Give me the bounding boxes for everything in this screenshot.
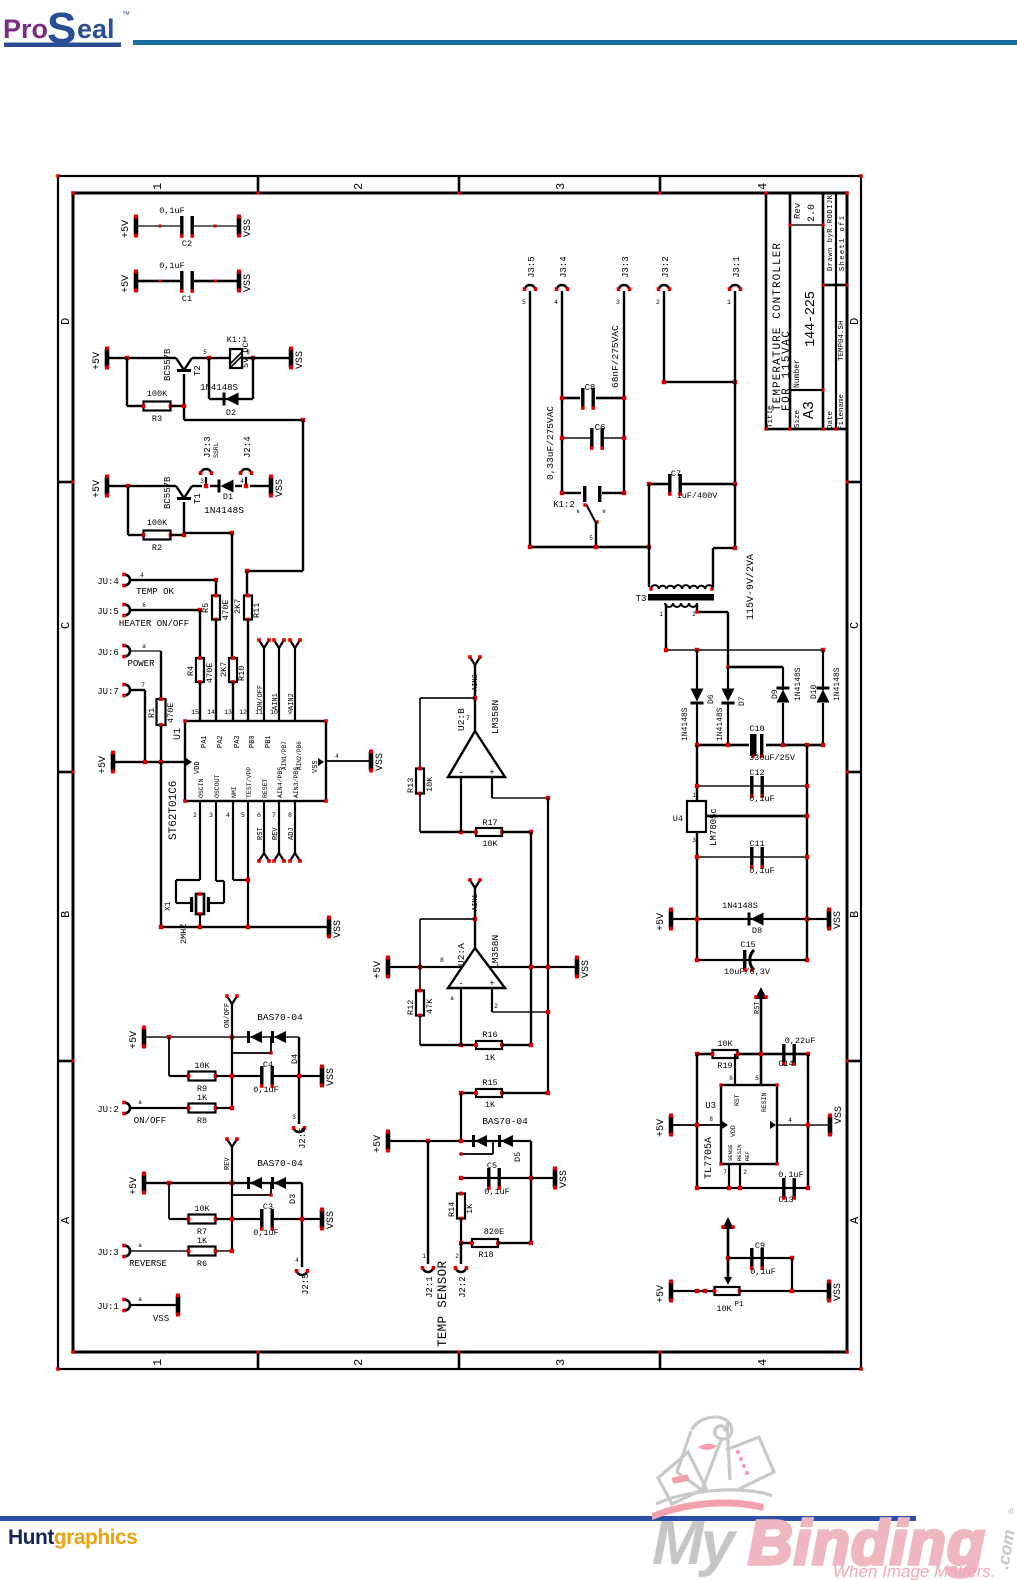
svg-text:0,1uF: 0,1uF <box>484 1187 510 1197</box>
svg-text:0,1uF: 0,1uF <box>159 261 185 271</box>
svg-text:LM7805c: LM7805c <box>709 808 719 846</box>
svg-text:VSS: VSS <box>333 920 344 938</box>
svg-text:3: 3 <box>616 299 620 306</box>
svg-text:C15: C15 <box>740 940 755 950</box>
svg-text:B: B <box>848 911 862 918</box>
svg-text:VDD: VDD <box>194 761 202 774</box>
svg-text:470E: 470E <box>205 663 215 683</box>
svg-text:J3:2: J3:2 <box>661 256 671 278</box>
svg-text:C5: C5 <box>487 1161 497 1171</box>
svg-text:0,33uF/275VAC: 0,33uF/275VAC <box>545 406 556 480</box>
svg-text:R5: R5 <box>201 603 211 613</box>
svg-text:VSS: VSS <box>375 753 386 771</box>
svg-text:®: ® <box>1008 1506 1015 1516</box>
svg-text:VSS: VSS <box>275 479 286 497</box>
svg-text:U4: U4 <box>673 814 683 824</box>
svg-text:1N4148S: 1N4148S <box>794 667 803 701</box>
svg-text:D1: D1 <box>223 492 233 502</box>
svg-text:+5V: +5V <box>92 480 103 498</box>
svg-text:2.0: 2.0 <box>807 204 818 222</box>
svg-text:470E: 470E <box>166 703 176 723</box>
svg-text:+5V: +5V <box>373 961 384 979</box>
svg-text:+5V: +5V <box>129 1177 140 1195</box>
svg-text:J3:5: J3:5 <box>527 256 537 278</box>
svg-text:J2:5: J2:5 <box>301 1273 311 1295</box>
svg-text:2: 2 <box>494 1003 498 1010</box>
svg-text:SSRL: SSRL <box>213 442 220 458</box>
svg-text:C11: C11 <box>749 839 764 849</box>
svg-text:VSS: VSS <box>243 219 254 237</box>
svg-text:100K: 100K <box>147 389 168 399</box>
svg-text:820E: 820E <box>484 1227 504 1237</box>
svg-text:J3:3: J3:3 <box>621 256 631 278</box>
svg-text:A: A <box>848 1216 862 1224</box>
svg-text:R1: R1 <box>147 708 157 718</box>
svg-text:D: D <box>59 318 73 325</box>
svg-text:2: 2 <box>455 1253 459 1260</box>
svg-text:3: 3 <box>554 183 568 190</box>
svg-text:5: 5 <box>589 535 593 542</box>
svg-text:C1: C1 <box>182 294 192 304</box>
svg-text:12: 12 <box>239 709 247 716</box>
svg-text:Filename: Filename <box>838 394 846 430</box>
svg-text:10K: 10K <box>716 1304 732 1314</box>
svg-text:R10: R10 <box>237 666 247 681</box>
svg-text:BAS70-04: BAS70-04 <box>257 1158 303 1169</box>
svg-text:RST: RST <box>754 1001 762 1014</box>
svg-text:REV: REV <box>272 827 280 840</box>
svg-text:1K: 1K <box>197 1093 208 1103</box>
svg-text:330uF/25V: 330uF/25V <box>749 753 796 763</box>
svg-text:TL7705A: TL7705A <box>704 1137 715 1179</box>
svg-text:PB1: PB1 <box>265 735 273 748</box>
svg-text:4: 4 <box>295 1257 299 1264</box>
svg-text:9: 9 <box>246 349 250 356</box>
svg-text:2: 2 <box>352 183 366 190</box>
svg-text:VSS: VSS <box>243 274 254 292</box>
svg-text:1K: 1K <box>485 1100 496 1110</box>
svg-text:VDD: VDD <box>730 1125 737 1137</box>
svg-text:JU:7: JU:7 <box>97 687 119 697</box>
svg-text:TEST/VPP: TEST/VPP <box>246 767 253 798</box>
svg-text:AIN4/PB5: AIN4/PB5 <box>277 767 284 798</box>
svg-text:4: 4 <box>240 478 244 485</box>
svg-text:ON/OFF: ON/OFF <box>224 1003 232 1028</box>
svg-text:R18: R18 <box>478 1250 493 1260</box>
svg-text:D7: D7 <box>738 696 747 706</box>
svg-text:J3:4: J3:4 <box>559 256 569 278</box>
svg-text:R16: R16 <box>482 1030 497 1040</box>
svg-text:ADJ: ADJ <box>288 827 296 840</box>
svg-text:AIN2: AIN2 <box>288 693 296 710</box>
svg-text:JU:5: JU:5 <box>97 607 119 617</box>
svg-text:C7: C7 <box>671 469 681 479</box>
svg-text:a: a <box>138 1242 142 1249</box>
svg-text:+5V: +5V <box>121 275 132 293</box>
svg-text:JU:1: JU:1 <box>97 1302 119 1312</box>
svg-text:8: 8 <box>709 1116 713 1123</box>
svg-text:C14: C14 <box>778 1059 793 1069</box>
svg-text:A3: A3 <box>801 401 818 419</box>
svg-text:REVERSE: REVERSE <box>129 1259 167 1269</box>
svg-text:+5V: +5V <box>373 1135 384 1153</box>
svg-text:0,1uF: 0,1uF <box>253 1085 279 1095</box>
svg-text:J2:1: J2:1 <box>425 1276 435 1298</box>
svg-text:+5V: +5V <box>656 913 667 931</box>
svg-text:0,1uF: 0,1uF <box>749 866 775 876</box>
svg-text:+5V: +5V <box>129 1031 140 1049</box>
svg-text:BC557B: BC557B <box>163 476 173 509</box>
svg-text:1N4148S: 1N4148S <box>204 505 244 516</box>
svg-text:+5V: +5V <box>98 756 109 774</box>
svg-text:1N4148S: 1N4148S <box>681 707 690 741</box>
svg-text:144-225: 144-225 <box>803 291 819 347</box>
svg-text:a: a <box>450 995 454 1002</box>
svg-text:K1:2: K1:2 <box>553 500 575 510</box>
svg-text:ST62T01C6: ST62T01C6 <box>168 781 180 840</box>
svg-text:a: a <box>142 643 146 650</box>
svg-text:AIN1/PB7: AIN1/PB7 <box>281 741 288 770</box>
svg-text:P1: P1 <box>734 1301 744 1309</box>
svg-text:R17: R17 <box>482 818 497 828</box>
svg-text:VSS: VSS <box>833 1283 844 1301</box>
svg-text:C: C <box>59 622 73 629</box>
svg-text:D6: D6 <box>707 694 716 704</box>
svg-text:FOR 115VAC: FOR 115VAC <box>781 331 793 411</box>
svg-text:TEMP OK: TEMP OK <box>136 587 174 597</box>
svg-text:0,1uF: 0,1uF <box>749 794 775 804</box>
svg-text:J2:3: J2:3 <box>203 436 213 458</box>
svg-text:0,1uF: 0,1uF <box>778 1170 804 1180</box>
svg-text:PA1: PA1 <box>201 735 209 748</box>
svg-text:3: 3 <box>200 478 204 485</box>
svg-text:C13: C13 <box>778 1195 793 1205</box>
svg-text:VSS: VSS <box>312 760 320 773</box>
svg-text:VSS: VSS <box>326 1068 337 1086</box>
svg-text:LM358N: LM358N <box>490 700 501 734</box>
svg-text:JU:4: JU:4 <box>97 577 119 587</box>
svg-text:+: + <box>489 768 494 778</box>
svg-text:1: 1 <box>151 1359 165 1366</box>
svg-text:C: C <box>848 622 862 629</box>
svg-text:JU:2: JU:2 <box>97 1105 119 1115</box>
svg-text:J2:5: J2:5 <box>298 1127 308 1149</box>
svg-text:VSS: VSS <box>581 960 592 978</box>
svg-text:3: 3 <box>209 812 213 819</box>
svg-text:JU:3: JU:3 <box>97 1248 119 1258</box>
svg-text:R3: R3 <box>152 414 162 424</box>
svg-text:2: 2 <box>743 1169 747 1176</box>
svg-text:C12: C12 <box>749 768 764 778</box>
svg-text:a: a <box>138 1099 142 1106</box>
svg-text:7: 7 <box>723 1169 727 1176</box>
svg-text:RST: RST <box>257 827 265 840</box>
svg-text:4: 4 <box>756 183 770 190</box>
svg-text:C4: C4 <box>263 1060 273 1070</box>
svg-text:X1: X1 <box>164 901 173 911</box>
svg-text:6: 6 <box>142 602 146 609</box>
svg-text:RESIN: RESIN <box>761 1092 768 1112</box>
svg-text:15: 15 <box>191 709 199 716</box>
svg-text:0,1uF: 0,1uF <box>253 1228 279 1238</box>
svg-text:R2: R2 <box>152 543 162 553</box>
svg-text:-: - <box>458 768 463 778</box>
svg-text:+: + <box>489 979 494 989</box>
svg-text:Date: Date <box>827 411 835 429</box>
svg-text:1: 1 <box>692 792 696 799</box>
svg-text:RESIN: RESIN <box>736 1144 743 1161</box>
svg-text:D10: D10 <box>810 684 819 699</box>
svg-text:4: 4 <box>140 572 144 579</box>
svg-text:4: 4 <box>335 753 339 760</box>
svg-text:8: 8 <box>288 812 292 819</box>
svg-text:+5V: +5V <box>656 1119 667 1137</box>
svg-text:JU:6: JU:6 <box>97 648 119 658</box>
svg-text:T1: T1 <box>193 493 203 504</box>
svg-text:7: 7 <box>272 812 276 819</box>
svg-text:C6: C6 <box>595 423 606 433</box>
svg-text:5: 5 <box>755 1075 759 1082</box>
svg-text:4: 4 <box>226 812 230 819</box>
svg-text:1K: 1K <box>485 1053 496 1063</box>
svg-text:0,22uF: 0,22uF <box>785 1036 816 1046</box>
svg-text:My: My <box>652 1509 739 1578</box>
svg-text:Number: Number <box>793 359 802 388</box>
svg-text:2: 2 <box>193 812 197 819</box>
svg-text:REF: REF <box>744 1151 751 1161</box>
svg-text:14: 14 <box>207 709 215 716</box>
svg-text:3: 3 <box>554 1359 568 1366</box>
svg-text:C10: C10 <box>749 724 764 734</box>
svg-text:HEATER ON/OFF: HEATER ON/OFF <box>119 619 189 629</box>
svg-text:Drawn byR.RODIJK: Drawn byR.RODIJK <box>827 194 835 271</box>
svg-text:PA3: PA3 <box>234 735 242 748</box>
svg-text:R6: R6 <box>197 1259 207 1269</box>
svg-text:U1: U1 <box>173 728 184 740</box>
svg-text:1N4148S: 1N4148S <box>200 383 238 393</box>
svg-text:1K: 1K <box>465 1203 475 1214</box>
svg-text:AIN1: AIN1 <box>472 894 480 911</box>
svg-text:4: 4 <box>756 1359 770 1366</box>
svg-text:T2: T2 <box>193 365 203 376</box>
svg-text:R12: R12 <box>406 1000 416 1015</box>
svg-text:100K: 100K <box>147 518 168 528</box>
svg-text:2: 2 <box>352 1359 366 1366</box>
svg-text:+5V: +5V <box>92 352 103 370</box>
svg-text:2K7: 2K7 <box>233 599 243 614</box>
svg-text:+5V: +5V <box>656 1285 667 1303</box>
svg-text:ON/OFF: ON/OFF <box>134 1116 166 1126</box>
svg-text:B: B <box>59 911 73 918</box>
svg-text:VSS: VSS <box>833 911 844 929</box>
svg-text:NMI: NMI <box>231 786 238 798</box>
svg-text:2K7: 2K7 <box>219 662 229 677</box>
svg-text:10K: 10K <box>194 1204 210 1214</box>
svg-text:1N4148S: 1N4148S <box>833 667 842 701</box>
svg-text:When Image Matters.: When Image Matters. <box>833 1562 996 1580</box>
svg-text:BC557B: BC557B <box>163 348 173 381</box>
svg-text:R8: R8 <box>197 1116 207 1126</box>
svg-text:R13: R13 <box>406 778 416 793</box>
svg-text:N: N <box>576 509 579 515</box>
svg-text:1N4148S: 1N4148S <box>716 707 725 741</box>
svg-text:47K: 47K <box>425 998 435 1014</box>
svg-text:AIN1: AIN1 <box>272 693 280 710</box>
svg-text:BAS70-04: BAS70-04 <box>257 1012 303 1023</box>
svg-text:VSS: VSS <box>326 1211 337 1229</box>
svg-text:LM358N: LM358N <box>490 935 501 969</box>
svg-text:+5V: +5V <box>121 220 132 238</box>
svg-text:VSS: VSS <box>153 1314 169 1324</box>
svg-text:4: 4 <box>788 1117 792 1124</box>
svg-text:TEMP04.SH: TEMP04.SH <box>838 320 846 361</box>
svg-text:6: 6 <box>729 1075 733 1082</box>
svg-text:470E: 470E <box>221 600 231 620</box>
svg-text:13: 13 <box>224 709 232 716</box>
svg-text:10K: 10K <box>482 839 498 849</box>
svg-text:6: 6 <box>257 812 261 819</box>
svg-text:D5: D5 <box>513 1152 523 1162</box>
svg-text:Sheet1 of1: Sheet1 of1 <box>839 216 847 271</box>
svg-text:2MHZ: 2MHZ <box>179 924 189 944</box>
svg-text:R4: R4 <box>186 666 196 676</box>
svg-text:OSCIN: OSCIN <box>198 778 205 798</box>
svg-text:ON/OFF: ON/OFF <box>257 685 265 710</box>
svg-text:J3:1: J3:1 <box>732 256 742 278</box>
svg-text:R11: R11 <box>252 603 262 618</box>
svg-text:1K: 1K <box>197 1236 208 1246</box>
svg-text:J2:4: J2:4 <box>243 436 253 458</box>
svg-text:T3: T3 <box>636 594 647 604</box>
svg-text:1N4148S: 1N4148S <box>722 901 758 911</box>
svg-text:-: - <box>458 979 463 989</box>
svg-text:1: 1 <box>727 299 731 306</box>
svg-text:A: A <box>59 1216 73 1224</box>
svg-text:68nF/275VAC: 68nF/275VAC <box>610 325 621 388</box>
svg-text:VSS: VSS <box>834 1106 845 1124</box>
svg-text:1: 1 <box>659 611 663 618</box>
svg-text:5: 5 <box>522 299 526 306</box>
svg-text:10K: 10K <box>717 1039 733 1049</box>
svg-text:10K: 10K <box>194 1061 210 1071</box>
svg-text:Rev: Rev <box>793 202 803 219</box>
svg-text:TEMP SENSOR: TEMP SENSOR <box>436 1261 450 1347</box>
svg-text:4: 4 <box>554 299 558 306</box>
svg-text:C9: C9 <box>755 1241 765 1251</box>
svg-text:D9: D9 <box>771 689 780 699</box>
svg-text:R14: R14 <box>447 1202 457 1217</box>
svg-text:REV: REV <box>224 1157 232 1170</box>
svg-text:J2:2: J2:2 <box>458 1276 468 1298</box>
svg-text:AIN3/PB6: AIN3/PB6 <box>293 767 300 798</box>
svg-text:D2: D2 <box>226 408 236 418</box>
svg-text:a: a <box>138 1296 142 1303</box>
svg-text:PA2: PA2 <box>217 735 225 748</box>
svg-text:3: 3 <box>692 837 696 844</box>
svg-text:C3: C3 <box>263 1202 273 1212</box>
svg-text:C8: C8 <box>585 383 596 393</box>
svg-text:D8: D8 <box>752 926 762 936</box>
svg-text:BAS70-04: BAS70-04 <box>482 1116 528 1127</box>
svg-text:2: 2 <box>656 299 660 306</box>
svg-text:U2:A: U2:A <box>456 943 467 966</box>
svg-text:10K: 10K <box>425 776 435 792</box>
svg-text:7: 7 <box>466 715 470 722</box>
svg-text:U3: U3 <box>705 1101 716 1111</box>
svg-text:0,1uF: 0,1uF <box>159 206 185 216</box>
svg-text:AIN2: AIN2 <box>472 674 480 691</box>
svg-text:.com: .com <box>993 1528 1017 1570</box>
svg-text:POWER: POWER <box>127 659 155 669</box>
svg-text:R15: R15 <box>482 1078 497 1088</box>
svg-text:AIN2/PB6: AIN2/PB6 <box>296 741 303 770</box>
svg-text:RST: RST <box>734 1094 741 1106</box>
svg-text:PB0: PB0 <box>249 735 257 748</box>
svg-text:7: 7 <box>141 682 145 689</box>
svg-text:D: D <box>848 318 862 325</box>
svg-text:VSS: VSS <box>559 1170 570 1188</box>
svg-text:VSS: VSS <box>295 351 306 369</box>
svg-text:10uF/6,3V: 10uF/6,3V <box>724 967 771 977</box>
svg-text:R19: R19 <box>717 1061 732 1071</box>
svg-text:3: 3 <box>292 1114 296 1121</box>
svg-text:C2: C2 <box>182 239 192 249</box>
svg-text:1uF/400V: 1uF/400V <box>677 491 719 501</box>
svg-text:0,1uF: 0,1uF <box>750 1267 776 1277</box>
svg-text:115V-9V/2VA: 115V-9V/2VA <box>745 554 757 620</box>
svg-text:1: 1 <box>422 1253 426 1260</box>
svg-text:D3: D3 <box>288 1194 298 1204</box>
svg-text:OSCOUT: OSCOUT <box>214 774 221 798</box>
svg-text:5: 5 <box>203 349 207 356</box>
svg-text:RESET: RESET <box>262 778 269 798</box>
svg-text:8: 8 <box>440 957 444 964</box>
svg-text:SENSE: SENSE <box>727 1144 734 1161</box>
svg-text:5: 5 <box>241 812 245 819</box>
svg-text:1: 1 <box>151 183 165 190</box>
svg-text:N: N <box>602 509 605 515</box>
